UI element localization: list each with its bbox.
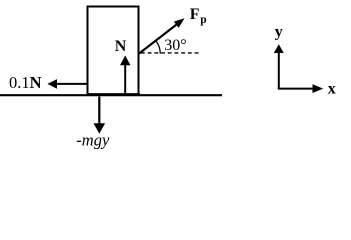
- svg-text:y: y: [275, 23, 283, 40]
- angle arc: [156, 41, 160, 53]
- block (rectangle on surface): [88, 7, 139, 96]
- svg-text:p: p: [200, 14, 206, 26]
- svg-text:-mgy: -mgy: [76, 130, 110, 149]
- svg-text:F: F: [190, 6, 200, 23]
- svg-text:0.1N: 0.1N: [9, 73, 42, 92]
- ground / surface line: [0, 94, 222, 96]
- ground thicker segment under block: [87, 93, 141, 95]
- dashed horizontal reference line: [141, 52, 201, 54]
- x axis arrow: [278, 84, 323, 93]
- svg-text:30°: 30°: [164, 37, 186, 54]
- gravity force arrow -mgy: [94, 97, 106, 134]
- applied force arrow Fp: [139, 18, 185, 54]
- svg-text:N: N: [115, 38, 127, 55]
- y axis arrow: [274, 44, 284, 88]
- svg-text:x: x: [328, 80, 336, 97]
- normal force arrow N: [120, 56, 131, 96]
- friction force arrow 0.1N: [47, 79, 87, 89]
